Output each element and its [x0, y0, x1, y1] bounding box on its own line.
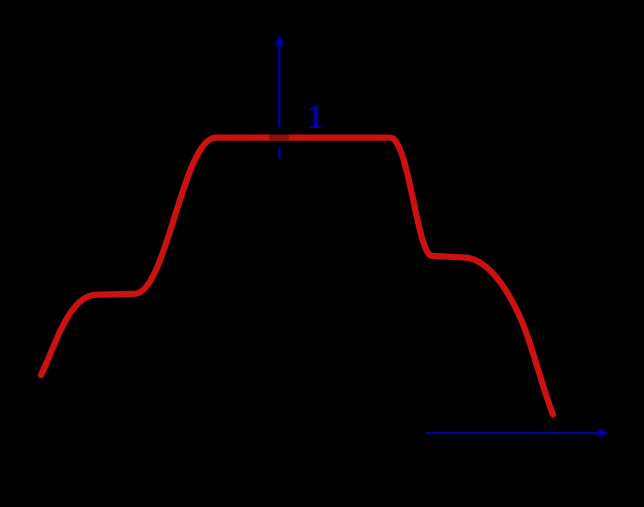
svg-text:1: 1 [307, 97, 325, 136]
